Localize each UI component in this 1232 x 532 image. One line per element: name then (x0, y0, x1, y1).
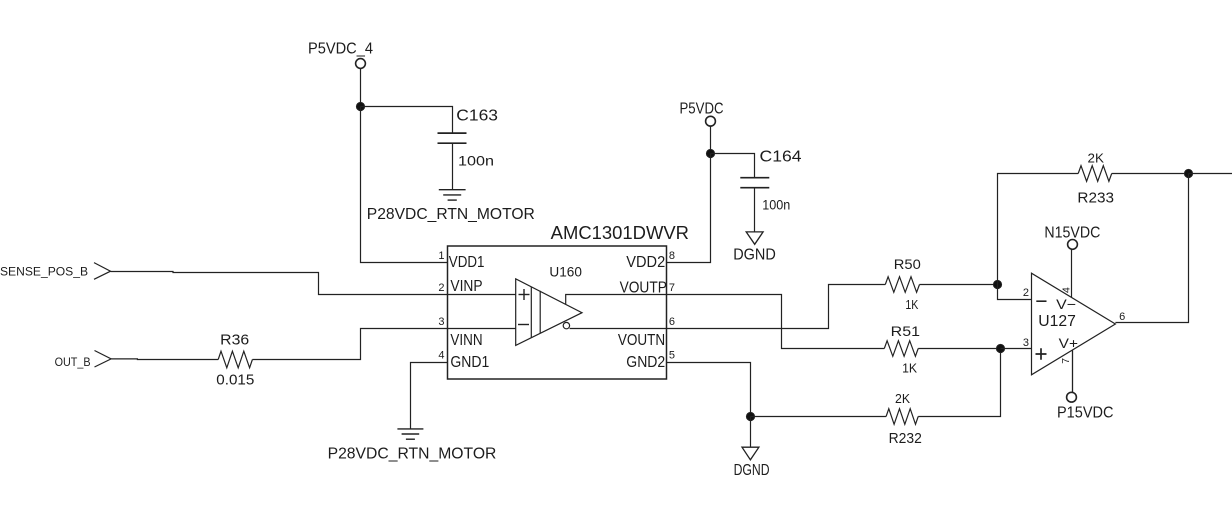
svg-text:DGND: DGND (734, 462, 770, 479)
U127 pin 4 lead (1071, 249, 1073, 297)
ground DGND (bottom) (734, 447, 770, 479)
U160 internal amp symbol (448, 279, 583, 346)
junction output node (1184, 169, 1192, 177)
svg-text:GND1: GND1 (450, 354, 489, 371)
wire R36 to pin 3 (252, 329, 447, 360)
U127 pin 7 lead (1072, 350, 1074, 392)
wire R51 to junction (918, 348, 1000, 350)
power port P15VDC (1057, 392, 1114, 421)
capacitor C164 (740, 149, 801, 213)
svg-text:1K: 1K (902, 361, 917, 376)
capacitor C163 (438, 107, 499, 168)
wire C163 to ground (452, 143, 454, 190)
wire junction to DGND (750, 417, 752, 448)
svg-text:V+: V+ (1059, 335, 1078, 351)
svg-text:100n: 100n (458, 153, 494, 169)
svg-text:6: 6 (669, 316, 675, 328)
wire output to right edge (1189, 173, 1232, 175)
wire pin 5 GND2 to junction (667, 363, 751, 417)
svg-text:4: 4 (438, 350, 444, 362)
wire R233 left leg (998, 174, 1079, 285)
U160 internal VOUTN line (570, 328, 667, 330)
svg-text:P15VDC: P15VDC (1057, 405, 1114, 422)
wire SENSE_POS_B to pin 2 (111, 272, 448, 295)
ground DGND (under C164) (733, 232, 776, 264)
svg-text:2K: 2K (895, 391, 910, 406)
resistor R233 (1077, 151, 1114, 207)
svg-text:P28VDC_RTN_MOTOR: P28VDC_RTN_MOTOR (328, 446, 497, 463)
wire R232 to R51 junction (918, 349, 1000, 417)
svg-text:1: 1 (438, 250, 444, 262)
wire P5VDC_4 to junction (360, 68, 362, 106)
junction P5VDC node (706, 149, 714, 157)
ground P28VDC_RTN_MOTOR (under GND1) (397, 429, 423, 439)
resistor R50 (885, 256, 921, 312)
svg-text:AMC1301DWVR: AMC1301DWVR (551, 223, 689, 243)
svg-text:3: 3 (1023, 337, 1029, 349)
wire junction to pin 8 (667, 154, 711, 263)
svg-text:VOUTN: VOUTN (618, 332, 665, 349)
ground P28VDC_RTN_MOTOR (under C163) (439, 190, 466, 200)
U160 internal VOUTP tap (566, 295, 667, 305)
svg-text:R50: R50 (894, 256, 921, 272)
junction GND2/R232/DGND node (746, 412, 754, 420)
svg-text:P5VDC: P5VDC (680, 101, 724, 118)
wire output junction to U127 pin 6 (1115, 174, 1188, 323)
svg-text:2: 2 (438, 282, 444, 294)
resistor R232 (886, 391, 922, 447)
wire R50 to junction (920, 284, 998, 286)
wire R233 to output junction (1112, 173, 1189, 175)
wire C164 to DGND (754, 188, 756, 232)
svg-text:U160: U160 (549, 265, 582, 280)
svg-text:0.015: 0.015 (216, 371, 254, 388)
junction P5VDC_4 node (356, 102, 364, 110)
svg-text:P28VDC_RTN_MOTOR: P28VDC_RTN_MOTOR (367, 206, 535, 223)
wire pin 7 VOUTP to R51 (667, 295, 885, 349)
svg-text:SENSE_POS_B: SENSE_POS_B (0, 265, 88, 279)
U160 output bubble (563, 322, 569, 328)
svg-text:2: 2 (1023, 287, 1029, 299)
svg-text:V−: V− (1056, 296, 1076, 312)
port OUT_B (55, 351, 112, 370)
svg-text:2K: 2K (1088, 151, 1105, 166)
svg-text:VDD2: VDD2 (626, 254, 665, 271)
power port P5VDC_4 (308, 41, 373, 69)
power port N15VDC (1044, 225, 1100, 250)
svg-text:R232: R232 (889, 430, 922, 447)
svg-text:1K: 1K (905, 297, 918, 312)
wire junction to C164 (711, 154, 755, 178)
wire junction to pin 1 (361, 107, 448, 263)
junction non-inverting input node (996, 344, 1004, 352)
svg-text:5: 5 (669, 350, 675, 362)
wire junction to C163 (361, 107, 453, 134)
wire OUT_B to R36 (111, 358, 218, 361)
power port P5VDC (680, 101, 724, 127)
resistor R36 (216, 332, 254, 389)
svg-text:7: 7 (669, 282, 675, 294)
svg-text:DGND: DGND (733, 247, 776, 264)
wire junction to U127 pin 2 (998, 285, 1032, 300)
IC U160 AMC1301DWVR box (448, 223, 690, 379)
svg-text:4: 4 (1060, 287, 1072, 293)
wire pin 6 VOUTN to R50 (667, 285, 886, 329)
junction inverting input node (993, 280, 1001, 288)
svg-text:U127: U127 (1038, 313, 1076, 330)
svg-text:6: 6 (1119, 311, 1125, 323)
port SENSE_POS_B (0, 263, 111, 280)
resistor R51 (884, 323, 920, 376)
svg-text:VINP: VINP (450, 278, 482, 295)
svg-text:VDD1: VDD1 (449, 254, 485, 271)
wire junction to U127 pin 3 (1001, 348, 1032, 350)
svg-text:R51: R51 (891, 323, 921, 339)
svg-text:C163: C163 (456, 107, 498, 124)
svg-text:P5VDC_4: P5VDC_4 (308, 41, 373, 58)
svg-text:7: 7 (1060, 358, 1072, 364)
svg-text:R233: R233 (1077, 189, 1114, 206)
svg-text:VINN: VINN (450, 332, 482, 349)
svg-text:3: 3 (438, 316, 444, 328)
svg-text:100n: 100n (762, 196, 790, 212)
op-amp U127 (1032, 273, 1116, 375)
wire junction to R232 (751, 416, 887, 418)
svg-text:8: 8 (669, 250, 675, 262)
svg-text:OUT_B: OUT_B (55, 355, 91, 369)
svg-text:R36: R36 (220, 332, 249, 349)
wire pin 4 GND1 to ground (411, 363, 448, 429)
wire P5VDC to junction (710, 126, 712, 153)
svg-text:GND2: GND2 (626, 354, 665, 371)
svg-text:C164: C164 (760, 149, 802, 166)
